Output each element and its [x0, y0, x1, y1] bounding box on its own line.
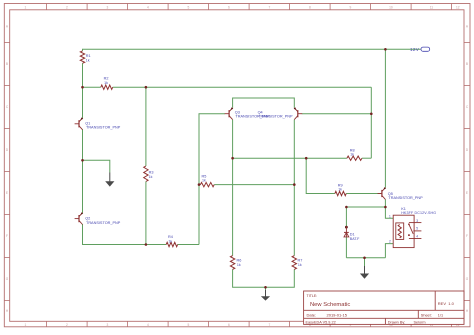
junction node J4 [81, 159, 84, 162]
relay K1 contact common [408, 223, 421, 234]
wire ground stub under relay link [364, 258, 366, 266]
svg-text:11: 11 [430, 6, 434, 10]
svg-text:TITLE:: TITLE: [307, 294, 318, 298]
junction node J13 [363, 257, 366, 260]
wire R2 right toward x371 [113, 86, 372, 88]
svg-text:B: B [6, 62, 8, 66]
svg-text:12: 12 [456, 6, 460, 10]
svg-text:9: 9 [349, 6, 351, 10]
svg-text:TRANSISTOR_PNP: TRANSISTOR_PNP [86, 126, 121, 130]
svg-text:New Schematic: New Schematic [310, 302, 350, 308]
svg-text:R7: R7 [298, 259, 303, 263]
resistor R5 [200, 182, 214, 186]
svg-text:F: F [6, 234, 8, 238]
svg-text:7: 7 [268, 6, 270, 10]
resistor R6 [230, 256, 234, 270]
junction node J3 [145, 86, 148, 89]
wire top supply rail [83, 49, 421, 51]
svg-text:1k: 1k [350, 153, 354, 157]
svg-text:R6: R6 [237, 259, 242, 263]
junction node J11 [384, 206, 387, 209]
transistor Q4 [297, 110, 299, 117]
svg-text:3: 3 [106, 6, 108, 10]
resistor R2 [101, 85, 113, 89]
transistor Q2 [78, 215, 80, 222]
svg-text:1: 1 [389, 215, 391, 219]
svg-text:D1: D1 [350, 233, 355, 237]
svg-text:1k: 1k [149, 175, 153, 179]
svg-text:5: 5 [187, 323, 189, 327]
svg-text:Sheet:: Sheet: [421, 313, 432, 317]
wire riser x199 up to Q3 base [199, 114, 225, 245]
wire Q4 base line [302, 113, 372, 115]
svg-text:2: 2 [66, 323, 68, 327]
wire ground branch from left rail [83, 160, 110, 172]
wire y158 line mirror to R8 [233, 157, 347, 159]
title block [304, 291, 464, 324]
svg-text:TRANSISTOR_PNP: TRANSISTOR_PNP [86, 221, 121, 225]
svg-text:5: 5 [187, 6, 189, 10]
junction node J7 [231, 157, 234, 160]
wire node branch left of Q5 collector [346, 206, 385, 208]
svg-text:2: 2 [66, 6, 68, 10]
svg-text:1k: 1k [237, 263, 241, 267]
resistor R3 [144, 166, 148, 182]
svg-text:1k: 1k [168, 239, 172, 243]
relay K1 coil squiggle [398, 225, 401, 238]
wire R5 left stub [199, 184, 200, 186]
junction node J2 [81, 86, 84, 89]
ground flag near Q1 [105, 173, 114, 187]
svg-text:REV 1.0: REV 1.0 [438, 301, 455, 306]
svg-text:1/1: 1/1 [438, 313, 443, 317]
resistor R1 [80, 51, 84, 63]
wire node at R2 left [83, 86, 101, 88]
svg-text:Date:: Date: [307, 312, 317, 317]
svg-text:4: 4 [416, 235, 418, 239]
wire relay pin2 drop [385, 244, 393, 258]
wire left rail R1 to Q1 [82, 63, 84, 118]
wire R5 line to Q4 collector line [214, 184, 294, 186]
svg-text:10: 10 [389, 6, 393, 10]
title block texts [306, 294, 455, 325]
svg-text:F: F [466, 234, 468, 238]
wire left rail Q1 to Q2 [82, 129, 84, 213]
svg-text:TRANSISTOR_PNP: TRANSISTOR_PNP [388, 196, 423, 200]
wire Q4 collector down to R7 [293, 120, 295, 256]
svg-text:5: 5 [416, 227, 418, 231]
ground flag under R6 R7 [261, 290, 270, 301]
relay K1 contact NO pad and stub [408, 234, 421, 238]
junction node J8 [305, 157, 308, 160]
wire Q2 collector down and right to R4 [83, 224, 167, 245]
svg-text:6: 6 [228, 6, 230, 10]
svg-text:R1: R1 [86, 54, 91, 58]
svg-text:BAT.F: BAT.F [350, 237, 360, 241]
wire x146 vertical upper (R2 node to R3) [145, 87, 147, 166]
relay K1 coil [396, 223, 404, 240]
transistor Q3 [228, 110, 230, 117]
svg-text:E: E [6, 191, 8, 195]
svg-text:R3: R3 [149, 171, 154, 175]
wire drop x306 to R9 line [306, 158, 335, 193]
svg-text:1k: 1k [86, 59, 90, 63]
svg-text:B: B [466, 62, 468, 66]
junction node J6 [370, 113, 373, 116]
wire R4 to vertical riser [178, 244, 199, 246]
junction node J12 [345, 206, 348, 209]
wire Q5 collector to relay pin1 [385, 199, 393, 218]
wire R8 to corner x371 [362, 157, 371, 159]
relay K1 contact NC stub [413, 230, 421, 232]
svg-text:1k: 1k [104, 81, 108, 85]
svg-text:1: 1 [25, 323, 27, 327]
resistor R8 [347, 156, 362, 160]
diode D1 [344, 226, 349, 237]
junction node J10 [293, 183, 296, 186]
svg-text:1k: 1k [202, 179, 206, 183]
svg-text:3: 3 [416, 219, 418, 223]
junction node J1 [384, 48, 387, 51]
svg-text:1k: 1k [298, 263, 302, 267]
svg-text:2019-01-15: 2019-01-15 [327, 312, 348, 317]
resistor R7 [292, 256, 296, 270]
svg-text:1k: 1k [338, 188, 342, 192]
junction node J14 [264, 286, 267, 289]
svg-text:4: 4 [147, 6, 149, 10]
wire down to D1 anode [345, 207, 347, 226]
svg-text:1: 1 [25, 6, 27, 10]
wire R6 R7 bottom link [233, 269, 295, 287]
wire bottom link under relay [346, 257, 385, 259]
wire ground stub below R6R7 link [265, 287, 267, 290]
resistor R9 [335, 191, 346, 195]
svg-text:3: 3 [106, 323, 108, 327]
svg-text:Selorm: Selorm [414, 320, 426, 324]
junction node J9 [198, 183, 201, 186]
wire D1 cathode down to bottom link [345, 237, 347, 258]
wire current mirror top link [233, 98, 295, 108]
relay K1 box [393, 215, 414, 247]
transistor Q5 [381, 190, 383, 197]
svg-text:8: 8 [309, 6, 311, 10]
wire vertical x371 from top line to R8 line [370, 87, 372, 158]
svg-text:2: 2 [389, 240, 391, 244]
svg-text:12V: 12V [410, 47, 420, 52]
junction node J5 [145, 243, 148, 246]
ground flag under relay [360, 266, 369, 279]
transistor Q1 [78, 120, 80, 127]
resistor R4 [166, 242, 177, 246]
svg-text:E: E [466, 191, 468, 195]
svg-text:Drawn By:: Drawn By: [388, 320, 406, 324]
svg-text:7: 7 [268, 323, 270, 327]
wire Q3 collector down to R6 [232, 120, 234, 256]
svg-text:4: 4 [147, 323, 149, 327]
svg-text:6: 6 [228, 323, 230, 327]
wire x146 vertical lower (R3 to R4 line) [145, 182, 147, 245]
svg-text:EasyEDA V5.9.22: EasyEDA V5.9.22 [306, 320, 336, 324]
wire right rail down to Q5 emitter [384, 49, 386, 187]
svg-text:HK3FF DC12V-SHG: HK3FF DC12V-SHG [401, 211, 436, 215]
wire R9 to Q5 base [346, 193, 381, 195]
svg-text:TRANSISTOR_PNP: TRANSISTOR_PNP [258, 115, 293, 119]
